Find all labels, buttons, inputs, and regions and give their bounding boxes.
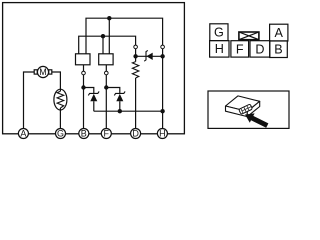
zener Z2 cathode bar [114, 91, 125, 95]
motor M1 body [37, 66, 48, 77]
thermal protector (oval with zigzag) [54, 89, 67, 110]
svg-text:A: A [20, 129, 26, 139]
wire bottom bus [94, 110, 163, 112]
svg-text:F: F [104, 129, 110, 139]
svg-text:B: B [274, 43, 282, 57]
svg-text:G: G [214, 26, 224, 40]
zener Z3 triangle [146, 53, 152, 60]
connector illustration frame [208, 91, 289, 128]
svg-text:A: A [274, 26, 283, 40]
wire from bus1 junction down to relay box K2 [108, 18, 110, 54]
connector 3D body top face [226, 96, 260, 117]
terminal H [157, 129, 167, 139]
relay coil box K2 [99, 54, 113, 65]
zener Z2 triangle [116, 94, 123, 101]
svg-text:M: M [39, 67, 47, 77]
wire resistor to terminal D [135, 78, 137, 134]
terminal F [101, 129, 111, 139]
arrow pointing at socket [245, 113, 268, 127]
junction dot bus2 [101, 34, 105, 38]
contact point left of Z3 [134, 45, 138, 49]
junction dot bus1 [107, 16, 111, 20]
junction dot bottom bus under Z2 [118, 109, 122, 113]
junction dot bottom bus at H branch [160, 109, 164, 113]
junction dot F branch [104, 85, 108, 89]
terminal D [131, 129, 141, 139]
svg-text:D: D [255, 42, 264, 56]
wire motor branch: A up to motor [24, 72, 35, 134]
zener Z3 cathode bar [144, 50, 148, 61]
junction dot node left of Z3 [133, 54, 137, 58]
wire branch to zener Z1 [84, 88, 94, 112]
connector 3D body front face [226, 106, 248, 117]
wire motor to thermal protector and down to G [52, 72, 61, 134]
pinout table: pin D cell [250, 41, 270, 57]
terminal A [18, 129, 28, 139]
contact point below K2 [105, 71, 109, 75]
svg-text:G: G [57, 129, 64, 139]
terminal B [79, 129, 89, 139]
resistor R1 (zigzag, D branch) [132, 62, 138, 78]
connector 3D body right face [247, 101, 259, 116]
pinout table: keyway box [239, 32, 259, 40]
zener Z1 cathode bar [88, 91, 99, 95]
pinout table: pin G cell [210, 24, 288, 58]
motor M1 brush left [34, 70, 37, 74]
connector socket block [239, 104, 253, 114]
pinout table: pin H cell [210, 41, 229, 58]
component case outline [3, 3, 185, 134]
wire bus1 top (left end drops into relay box K1, right end down to contact) [86, 18, 163, 133]
zener Z1 triangle [90, 94, 97, 101]
junction dot B branch [81, 85, 85, 89]
contact point right of Z3 [161, 45, 165, 49]
svg-text:D: D [132, 129, 139, 139]
relay coil box K1 [76, 54, 91, 65]
pinout table: pin F cell [231, 41, 249, 57]
terminal G [56, 129, 66, 139]
svg-text:H: H [159, 129, 166, 139]
svg-text:B: B [81, 129, 87, 139]
wire K1 bottom to terminal B [83, 65, 85, 134]
svg-text:H: H [215, 42, 224, 56]
motor M1 brush right [49, 70, 52, 74]
wire bus2 (left end drops into K1, right to resistor/zener node, down to D) [79, 36, 136, 61]
svg-text:F: F [236, 42, 244, 56]
pinout table: pin A cell [270, 24, 288, 41]
contact point below K1 [82, 71, 86, 75]
wire branch to zener Z2 [106, 88, 120, 112]
junction dot node right of Z3 [160, 54, 164, 58]
wire K2 bottom to terminal F [105, 65, 107, 134]
wire from bus2 junction down to relay box K2 [102, 36, 104, 54]
pinout table: pin B cell [270, 41, 288, 58]
wire zener Z3 horizontal link [136, 55, 163, 57]
